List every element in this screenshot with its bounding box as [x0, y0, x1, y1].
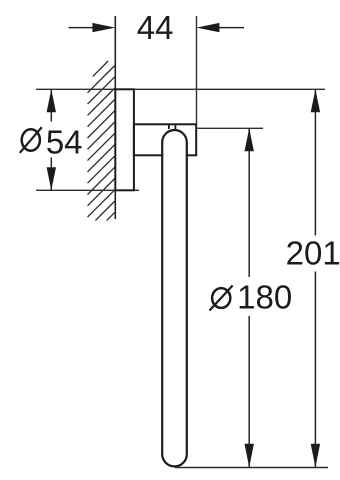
extension line bottom of plate (y=190.3) [36, 189, 139, 191]
wall hatching [88, 61, 115, 251]
extension line bottom (y=467.5) [175, 467, 328, 469]
tab tick right [174, 125, 176, 130]
extension line 44 right (x=196.5) [196, 16, 198, 124]
dim 54 line upper [50, 89, 52, 121]
label diameter 54 [20, 124, 83, 161]
dim 201 down arrow [311, 444, 320, 468]
dim 54 line lower [50, 158, 52, 191]
dim 44 right arrow [197, 23, 220, 32]
dim 180 down arrow [245, 444, 254, 468]
holder arm [134, 124, 196, 155]
dim 44 right leader [217, 27, 244, 29]
svg-text:44: 44 [137, 9, 174, 46]
svg-text:201: 201 [286, 235, 340, 272]
svg-text:54: 54 [46, 124, 83, 161]
dim 201 up arrow [311, 89, 320, 112]
dim 201 line lower [314, 272, 316, 468]
dim 54 up arrow [47, 89, 56, 112]
svg-text:180: 180 [237, 279, 292, 316]
ring capsule [162, 130, 187, 466]
label diameter 180 [210, 279, 293, 316]
extension line top (plate top, y=89.3) [36, 88, 325, 90]
extension line ring top (y=128.3) [198, 127, 264, 129]
dim 180 line upper [248, 128, 250, 277]
wall line [114, 16, 116, 219]
tab tick left [168, 125, 170, 130]
dim 201 line upper [314, 89, 316, 235]
mounting plate [115, 89, 134, 190]
dim 44 left leader [69, 27, 95, 29]
dim 44 left arrow [92, 23, 115, 32]
dim 54 down arrow [47, 167, 56, 190]
dim 180 line lower [248, 316, 250, 468]
dim 180 up arrow [245, 128, 254, 151]
